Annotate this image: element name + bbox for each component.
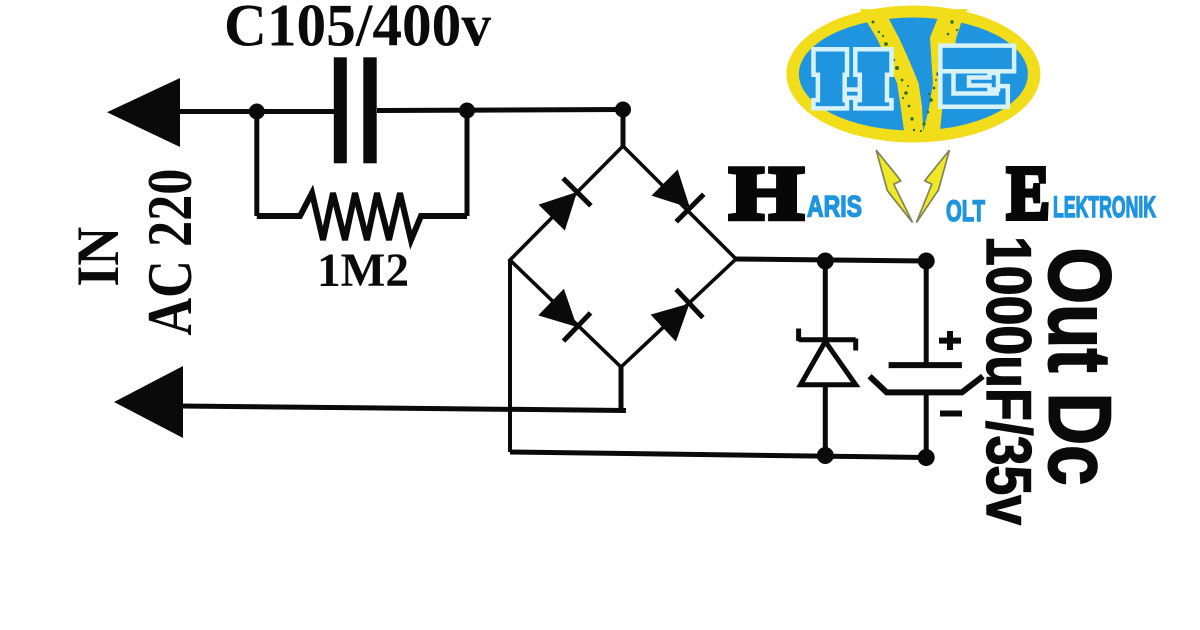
- svg-text:1M2: 1M2: [317, 244, 409, 297]
- svg-text:E: E: [1007, 151, 1050, 235]
- svg-text:1000uF/35v: 1000uF/35v: [973, 236, 1043, 525]
- svg-text:OLT: OLT: [946, 195, 985, 228]
- svg-text:LEKTRONIK: LEKTRONIK: [1053, 191, 1156, 224]
- svg-text:Out Dc: Out Dc: [1031, 248, 1130, 486]
- svg-text:AC 220: AC 220: [135, 169, 205, 336]
- svg-text:C105/400v: C105/400v: [224, 0, 491, 59]
- svg-text:IN: IN: [65, 227, 131, 287]
- svg-text:H: H: [730, 152, 804, 236]
- svg-text:ARIS: ARIS: [807, 191, 862, 224]
